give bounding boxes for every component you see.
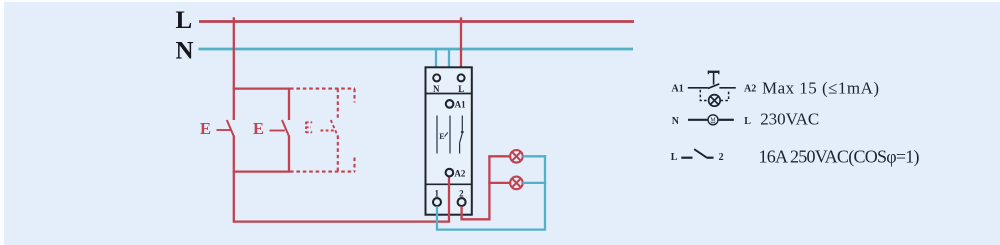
switch E2 lever <box>282 120 289 136</box>
switch E3 lever dashed <box>331 120 338 136</box>
relay terminal A2 pin <box>446 168 466 178</box>
wire lamp HL2 return <box>522 182 546 184</box>
svg-text:L: L <box>671 152 678 163</box>
wire N bus <box>199 48 634 51</box>
switch E2 label <box>253 119 264 138</box>
relay terminal N pin <box>433 74 440 93</box>
svg-text:L: L <box>458 84 464 94</box>
net N label <box>176 38 194 65</box>
relay divider bottom <box>426 183 472 185</box>
wire N drop to relay terminal A1 <box>448 49 450 100</box>
svg-text:2: 2 <box>459 188 464 198</box>
svg-text:2: 2 <box>719 152 724 163</box>
relay internal contact <box>459 116 463 154</box>
switch E3 top wire dashed <box>337 89 339 120</box>
svg-text:A1: A1 <box>455 100 466 110</box>
wire L drop to switch E1 <box>233 17 235 120</box>
legend pin L2 label <box>671 152 678 163</box>
wire relay terminal 2 to lamps <box>462 156 490 219</box>
legend indicator lamp dashed link <box>700 90 728 101</box>
svg-text:A1: A1 <box>672 83 684 94</box>
legend motor left lead <box>688 119 707 121</box>
legend contact lever <box>694 149 706 157</box>
wire dashed stub bottom right <box>353 158 355 172</box>
svg-text:16A 250VAC(COSφ=1): 16A 250VAC(COSφ=1) <box>759 146 920 167</box>
relay U1 body <box>426 67 472 214</box>
wire N drop to relay terminal N <box>435 49 437 75</box>
wire lamp HL2 feed <box>488 182 510 184</box>
svg-text:230VAC: 230VAC <box>760 110 819 129</box>
wire switches to relay A2 <box>234 172 449 222</box>
relay divider top <box>426 93 472 95</box>
relay terminal A1 pin <box>446 100 466 110</box>
net L label <box>176 7 193 34</box>
legend pin A1 label <box>672 83 684 94</box>
legend pin N label <box>672 116 680 127</box>
lamp HL1 <box>510 150 523 163</box>
wire top rail solid <box>233 87 290 89</box>
svg-text:L: L <box>744 116 751 127</box>
legend rating 230VAC <box>760 110 819 129</box>
legend pushbutton plunger <box>708 71 720 85</box>
wire top rail dashed extension <box>290 88 355 90</box>
svg-text:E: E <box>200 119 211 138</box>
relay internal coil label E <box>439 132 448 141</box>
svg-text:Max 15 (≤1mA): Max 15 (≤1mA) <box>762 79 879 98</box>
relay terminal L pin <box>458 74 465 93</box>
legend motor right lead <box>719 119 734 121</box>
svg-text:E: E <box>253 119 264 138</box>
svg-text:N: N <box>433 84 440 94</box>
switch E3 actuator stub dashed <box>321 130 335 132</box>
wire dashed stub top right <box>353 89 355 103</box>
legend pushbutton right lead <box>719 87 735 89</box>
svg-text:L: L <box>176 7 193 34</box>
wire L drop to relay terminal L <box>460 17 462 74</box>
switch E1 actuator stub <box>217 129 231 131</box>
svg-text:1: 1 <box>435 188 440 198</box>
wire lamp HL1 return <box>522 155 546 157</box>
legend pushbutton lever <box>708 84 719 89</box>
switch E2 bottom wire <box>288 136 290 172</box>
wire bottom rail dashed extension <box>290 171 355 173</box>
lamp HL2 <box>510 177 523 190</box>
svg-text:A2: A2 <box>454 168 465 178</box>
relay internal wire left <box>436 116 438 154</box>
wire L bus <box>199 20 634 23</box>
wire lamp HL1 feed <box>488 155 510 157</box>
svg-text:N: N <box>176 38 194 65</box>
legend pin L label <box>744 116 751 127</box>
legend contact right lead <box>706 157 713 159</box>
relay terminal 2 pin <box>458 188 466 206</box>
legend pushbutton left lead <box>688 87 708 89</box>
switch E2 top wire <box>288 89 290 120</box>
legend pin 2 label <box>719 152 724 163</box>
legend motor symbol M <box>708 115 718 125</box>
relay internal wire middle <box>449 116 451 154</box>
legend contact left lead <box>681 157 692 159</box>
wire below switch E1 <box>233 136 235 173</box>
switch E3 label dashed <box>306 122 312 133</box>
legend rating 16A 250VAC <box>759 146 920 167</box>
wire neutral return to terminal 1 <box>437 155 545 229</box>
relay terminal 1 pin <box>433 188 441 206</box>
switch E1 lever <box>227 120 234 136</box>
legend pin A2 label <box>744 83 756 94</box>
switch E2 actuator stub <box>270 130 285 132</box>
legend indicator lamp <box>709 95 721 107</box>
svg-text:E: E <box>439 132 444 141</box>
svg-text:N: N <box>672 116 680 127</box>
switch E1 label <box>200 119 211 138</box>
switch E3 bottom wire dashed <box>337 136 339 172</box>
svg-text:A2: A2 <box>744 83 756 94</box>
legend rating Max 15 <box>762 79 879 98</box>
wire bottom rail solid <box>233 170 290 172</box>
